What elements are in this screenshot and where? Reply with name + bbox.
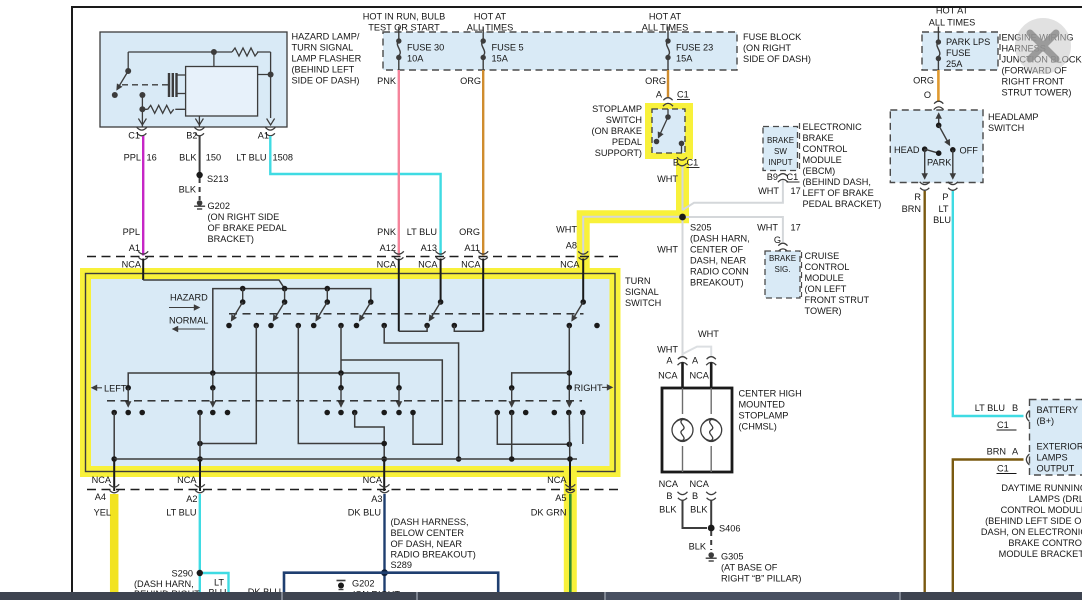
- terminal G cruise: [778, 243, 788, 252]
- wire LT BLU below S290: [199, 573, 201, 592]
- pole 4: [354, 299, 387, 328]
- flasher stationary contact dot: [139, 92, 145, 98]
- svg-text:FUSE 5: FUSE 5: [492, 43, 524, 53]
- svg-text:ALL TIMES: ALL TIMES: [929, 18, 975, 28]
- svg-text:A8: A8: [566, 241, 577, 251]
- park lps fuse 25A: [936, 27, 991, 71]
- svg-text:17: 17: [791, 186, 801, 196]
- svg-text:S289: S289: [391, 560, 412, 570]
- engine wiring harness junction block label: [1002, 33, 1082, 98]
- right drops to bus: [512, 413, 583, 460]
- flasher resistor R bottom: [148, 105, 174, 113]
- switch pole stubs: [243, 289, 328, 302]
- A4 drop: [111, 413, 117, 462]
- splice S289: [381, 569, 388, 576]
- flasher switch pivot dot: [125, 68, 131, 74]
- svg-text:(ON BRAKE: (ON BRAKE: [591, 126, 642, 136]
- wire ORG from fuse 23: [645, 70, 668, 97]
- flasher relay inner box: [186, 67, 258, 117]
- svg-text:DAYTIME RUNNING: DAYTIME RUNNING: [1001, 483, 1082, 493]
- EBCM label leader: [799, 123, 801, 170]
- wire LT BLU branch S290: [203, 573, 229, 598]
- pole 6: [567, 299, 600, 328]
- svg-text:DK GRN: DK GRN: [531, 508, 567, 518]
- svg-text:(BEHIND DASH,: (BEHIND DASH,: [803, 177, 871, 187]
- svg-text:SIGNAL: SIGNAL: [625, 287, 659, 297]
- svg-text:DASH, ON ELECTRONIC: DASH, ON ELECTRONIC: [981, 527, 1082, 537]
- svg-text:A: A: [692, 356, 699, 366]
- svg-text:FRONT STRUT: FRONT STRUT: [805, 295, 870, 305]
- svg-text:C1: C1: [997, 420, 1009, 430]
- left bus drop stubs: [213, 373, 341, 388]
- wire BRN exterior lamps: [953, 447, 1024, 593]
- brake sw input box EBCM: [763, 127, 798, 171]
- terminal C1 flasher: [128, 127, 147, 140]
- svg-text:CONTROL: CONTROL: [805, 262, 850, 272]
- exit stub A5: [547, 459, 570, 491]
- svg-text:OUTPUT: OUTPUT: [1037, 464, 1075, 474]
- svg-text:FUSE BLOCK: FUSE BLOCK: [743, 32, 802, 42]
- DRL exterior lamps output label: [1037, 442, 1082, 474]
- svg-text:G305: G305: [721, 552, 743, 562]
- svg-text:RIGHT “B” PILLAR): RIGHT “B” PILLAR): [721, 574, 802, 584]
- svg-text:(ON RIGHT SIDE: (ON RIGHT SIDE: [208, 212, 280, 222]
- svg-text:BLK: BLK: [659, 505, 677, 515]
- stoplamp switch stationary contact: [679, 141, 685, 153]
- svg-text:NORMAL: NORMAL: [169, 316, 208, 326]
- wire BRN R: [924, 191, 926, 592]
- park lps fuse feed label: [929, 6, 975, 28]
- svg-text:NCA: NCA: [177, 475, 197, 485]
- svg-text:LAMPS (DRL): LAMPS (DRL): [1029, 494, 1082, 504]
- svg-text:BLU: BLU: [933, 215, 951, 225]
- bulb right: [701, 419, 722, 442]
- terminal A4: [95, 484, 119, 502]
- park lps fuse box: [922, 32, 998, 70]
- terminal A3: [371, 484, 389, 504]
- svg-text:(DASH HARNESS,: (DASH HARNESS,: [391, 517, 469, 527]
- exit stub A3: [363, 459, 385, 491]
- exterior C1 label: [997, 464, 1017, 474]
- engine harness label leader: [999, 34, 1001, 62]
- svg-text:TURN SIGNAL: TURN SIGNAL: [292, 43, 354, 53]
- svg-text:SUPPORT): SUPPORT): [595, 148, 642, 158]
- terminal B left CHMSL: [659, 479, 688, 501]
- wire BLK 150: [179, 136, 221, 175]
- wire WHT branch to CHMSL right: [657, 329, 719, 356]
- flasher switch blade: [117, 71, 128, 90]
- svg-text:LEFT OF BRAKE: LEFT OF BRAKE: [803, 188, 874, 198]
- connector row bottom dashed line: [87, 489, 622, 491]
- contact dots row group1: [111, 410, 145, 416]
- hazard lamp / turn signal lamp flasher box: [100, 32, 287, 127]
- svg-text:S205: S205: [690, 223, 711, 233]
- svg-text:RADIO CONN: RADIO CONN: [690, 267, 749, 277]
- switch top bus: [213, 286, 371, 373]
- contact dots row group2: [197, 410, 230, 416]
- svg-text:WHT: WHT: [556, 225, 577, 235]
- svg-text:NCA: NCA: [658, 371, 678, 381]
- headlamp HEAD contact: [894, 145, 928, 155]
- svg-text:BLK: BLK: [690, 505, 708, 515]
- flasher resistor R top: [232, 48, 258, 56]
- riser stationary pole4: [384, 326, 461, 462]
- svg-text:ELECTRONIC: ELECTRONIC: [803, 122, 863, 132]
- svg-text:BELOW CENTER: BELOW CENTER: [391, 528, 465, 538]
- wire ORG park lps: [913, 70, 938, 102]
- svg-text:HAZARD: HAZARD: [170, 293, 208, 303]
- svg-text:(ON LEFT: (ON LEFT: [805, 284, 847, 294]
- flasher exit arrows: [138, 119, 274, 126]
- fuse block box: [383, 32, 737, 70]
- svg-text:B: B: [692, 491, 698, 501]
- NCA stub A8: [582, 259, 584, 303]
- svg-text:O: O: [924, 90, 931, 100]
- contact dots row group5: [495, 410, 529, 416]
- svg-text:PPL: PPL: [124, 153, 141, 163]
- svg-text:HOT AT: HOT AT: [936, 6, 969, 16]
- svg-text:TURN: TURN: [625, 276, 651, 286]
- terminal O headlamp switch: [934, 101, 944, 110]
- right lower links: [497, 413, 572, 448]
- CHMSL input wires: [683, 363, 712, 389]
- svg-text:SIDE OF DASH): SIDE OF DASH): [743, 54, 811, 64]
- feed label hot at all times 1: [467, 12, 513, 33]
- wire DK BLU A3: [348, 494, 385, 592]
- terminal A12 connector: [377, 251, 404, 269]
- svg-text:TOWER): TOWER): [805, 306, 842, 316]
- svg-text:MODULE BRACKET): MODULE BRACKET): [999, 549, 1082, 559]
- right bus: [509, 373, 569, 391]
- contact dots row group3: [324, 410, 357, 416]
- svg-text:A13: A13: [421, 243, 437, 253]
- fuse 5 15A: [481, 27, 524, 71]
- svg-text:S290: S290: [172, 569, 193, 579]
- svg-text:SIDE OF DASH): SIDE OF DASH): [292, 76, 360, 86]
- svg-text:LEFT: LEFT: [104, 383, 127, 393]
- wire LT BLU P: [953, 191, 1024, 416]
- flasher coil contacts: [169, 73, 186, 97]
- svg-text:PNK: PNK: [377, 227, 397, 237]
- terminal A exterior: [1026, 454, 1029, 465]
- ground G202: [194, 200, 287, 244]
- stoplamp switch highlight: [645, 103, 693, 159]
- svg-text:YEL: YEL: [94, 508, 111, 518]
- svg-text:LT: LT: [938, 204, 948, 214]
- flasher lower resistor wire: [142, 95, 185, 127]
- right label and arrow: [567, 383, 613, 393]
- svg-text:PARK LPS: PARK LPS: [946, 37, 990, 47]
- cross link mid: [341, 360, 442, 444]
- svg-text:BRAKE: BRAKE: [803, 133, 834, 143]
- svg-text:HEAD: HEAD: [894, 145, 920, 155]
- svg-text:NCA: NCA: [659, 479, 679, 489]
- svg-text:C1: C1: [787, 172, 799, 182]
- svg-text:NCA: NCA: [92, 475, 112, 485]
- svg-text:WHT: WHT: [657, 245, 678, 255]
- ground G305: [706, 552, 802, 584]
- highlighted wire WHT S205 to A8: [556, 217, 689, 272]
- brake sig box cruise: [765, 251, 800, 298]
- left bus: [128, 370, 399, 388]
- svg-text:OFF: OFF: [960, 145, 979, 155]
- flasher top wire: [128, 52, 270, 118]
- svg-text:SIG.: SIG.: [774, 265, 790, 274]
- fuse 23 15A: [665, 27, 713, 71]
- terminal A11 connector: [461, 251, 488, 269]
- A11 feed link: [454, 326, 483, 332]
- svg-text:BRN: BRN: [902, 204, 921, 214]
- terminal B C1 stoplamp: [657, 157, 699, 184]
- wire BLK left CHMSL: [659, 500, 707, 528]
- svg-text:OF BRAKE PEDAL: OF BRAKE PEDAL: [208, 223, 287, 233]
- terminal R headlamp: [902, 182, 930, 214]
- contact dots row group4: [381, 410, 415, 416]
- svg-text:A11: A11: [464, 243, 480, 253]
- flasher mechanical dashed link: [122, 84, 168, 86]
- svg-text:MODULE: MODULE: [803, 155, 842, 165]
- svg-text:(ON RIGHT: (ON RIGHT: [743, 43, 791, 53]
- svg-text:BRAKE: BRAKE: [769, 254, 796, 263]
- watermark close button: [1015, 18, 1071, 74]
- wire DK BLU loop to grounds: [284, 573, 498, 592]
- svg-text:C1: C1: [687, 158, 699, 168]
- svg-text:ORG: ORG: [459, 227, 480, 237]
- ground G202 lower: [337, 579, 401, 600]
- terminal B2 flasher: [186, 127, 204, 140]
- flasher blade end contact dot: [112, 92, 118, 98]
- svg-text:ORG: ORG: [645, 76, 666, 86]
- switch mechanical dashed line: [229, 313, 584, 315]
- headlamp switch blade: [939, 125, 950, 145]
- terminal A right CHMSL: [690, 356, 717, 381]
- svg-text:BLK: BLK: [689, 542, 707, 552]
- terminal A1 connector: [122, 251, 149, 269]
- svg-text:A1: A1: [258, 131, 269, 141]
- A3 link: [355, 413, 387, 462]
- riser stationary pole2: [298, 326, 384, 444]
- headlamp switch box: [890, 110, 983, 183]
- svg-text:S213: S213: [207, 174, 228, 184]
- wire PNK from fuse 30: [377, 70, 399, 256]
- svg-text:CRUISE: CRUISE: [805, 251, 840, 261]
- svg-text:BRAKE CONTROL: BRAKE CONTROL: [1008, 538, 1082, 548]
- splice S290: [172, 569, 203, 579]
- stoplamp switch label: [591, 104, 642, 158]
- svg-text:A: A: [666, 356, 673, 366]
- wire BLK dashed to ground: [179, 178, 200, 200]
- terminal B9 C1 EBCM: [767, 172, 800, 182]
- fuse 30 10A: [396, 27, 444, 71]
- wire BLK dashed to G305: [689, 531, 712, 552]
- svg-text:NCA: NCA: [690, 371, 710, 381]
- wire ORG from fuse 5: [460, 70, 483, 256]
- battery C1 label: [997, 420, 1017, 430]
- switch bottom bus: [114, 456, 577, 462]
- terminal A1 flasher: [258, 127, 276, 140]
- svg-text:G202: G202: [208, 201, 230, 211]
- svg-text:OF DASH, NEAR: OF DASH, NEAR: [391, 539, 463, 549]
- svg-text:HAZARD LAMP/: HAZARD LAMP/: [292, 32, 360, 42]
- wire PPL 16: [124, 136, 157, 256]
- headlamp switch label: [988, 112, 1039, 133]
- svg-text:FUSE 30: FUSE 30: [407, 43, 444, 53]
- page frame border top: [71, 6, 1082, 8]
- svg-text:16: 16: [147, 153, 157, 163]
- CHMSL label: [739, 389, 802, 432]
- terminal A8 connector: [560, 251, 588, 269]
- svg-text:B: B: [1012, 403, 1018, 413]
- page frame border left: [71, 6, 73, 592]
- svg-text:150: 150: [206, 153, 221, 163]
- svg-text:WHT: WHT: [698, 329, 719, 339]
- flasher label: [292, 32, 362, 86]
- svg-text:LT: LT: [214, 578, 224, 588]
- NCA stub A13: [440, 259, 442, 303]
- svg-text:PEDAL: PEDAL: [612, 137, 642, 147]
- svg-text:S406: S406: [719, 524, 740, 534]
- left row dots: [210, 385, 402, 391]
- terminal A2: [186, 484, 205, 504]
- svg-text:WHT: WHT: [657, 174, 678, 184]
- svg-text:NCA: NCA: [690, 479, 710, 489]
- svg-text:DK BLU: DK BLU: [348, 508, 381, 518]
- svg-text:PPL: PPL: [123, 227, 140, 237]
- svg-text:A5: A5: [555, 493, 566, 503]
- svg-text:NCA: NCA: [363, 475, 383, 485]
- svg-text:(DASH HARN,: (DASH HARN,: [134, 579, 194, 589]
- wire PNK lower labels: [377, 227, 397, 253]
- svg-text:SWITCH: SWITCH: [625, 298, 661, 308]
- svg-text:B2: B2: [186, 131, 197, 141]
- svg-text:ORG: ORG: [460, 76, 481, 86]
- lower mechanical dashed line: [107, 400, 582, 402]
- stoplamp switch box: [652, 109, 685, 153]
- svg-text:HOT AT: HOT AT: [474, 12, 507, 22]
- EBCM label: [803, 122, 882, 209]
- svg-text:CENTER HIGH: CENTER HIGH: [739, 389, 802, 399]
- svg-text:RADIO BREAKOUT): RADIO BREAKOUT): [391, 550, 476, 560]
- terminal B right CHMSL: [690, 479, 717, 501]
- svg-text:C1: C1: [128, 131, 140, 141]
- stoplamp switch blade: [654, 117, 668, 144]
- svg-text:PARK: PARK: [927, 158, 952, 168]
- headlamp OFF contact: [950, 145, 978, 155]
- turn signal switch label: [625, 276, 661, 308]
- svg-text:INPUT: INPUT: [769, 158, 793, 167]
- svg-text:A: A: [1012, 447, 1019, 457]
- contact arrows left: [128, 388, 399, 407]
- highlighted wire WHT stoplamp to S205: [676, 157, 689, 221]
- NCA stub A11: [482, 259, 484, 332]
- svg-text:CENTER OF: CENTER OF: [690, 245, 743, 255]
- riser stationary pole3: [340, 326, 342, 388]
- cruise control module label: [805, 251, 870, 316]
- svg-text:PEDAL BRACKET): PEDAL BRACKET): [803, 199, 882, 209]
- svg-text:SWITCH: SWITCH: [606, 115, 642, 125]
- wire DK GRN A5: [531, 494, 571, 592]
- svg-text:STOPLAMP: STOPLAMP: [739, 411, 789, 421]
- pole 2: [268, 299, 301, 328]
- svg-text:MODULE: MODULE: [805, 273, 844, 283]
- svg-text:G202: G202: [352, 579, 374, 589]
- left label and arrow: [92, 383, 131, 393]
- svg-text:RIGHT FRONT: RIGHT FRONT: [1002, 77, 1065, 87]
- svg-text:HOT IN RUN, BULB: HOT IN RUN, BULB: [363, 12, 446, 22]
- svg-text:LAMP FLASHER: LAMP FLASHER: [292, 54, 362, 64]
- terminal A5: [555, 484, 575, 503]
- svg-text:A12: A12: [380, 243, 396, 253]
- CHMSL box: [662, 388, 732, 472]
- svg-text:FUSE 23: FUSE 23: [676, 43, 713, 53]
- contact arrows right: [512, 387, 570, 406]
- NCA stub A12: [398, 259, 400, 332]
- wire WHT S205 to CHMSL: [657, 217, 682, 356]
- svg-text:15A: 15A: [492, 54, 509, 64]
- svg-text:RIGHT: RIGHT: [574, 383, 603, 393]
- svg-text:BRN: BRN: [987, 447, 1006, 457]
- right side pole6 riser: [567, 326, 573, 388]
- wire PPL lower labels: [123, 227, 140, 253]
- svg-text:PNK: PNK: [377, 76, 397, 86]
- wire LT BLU 1508: [236, 136, 440, 256]
- flasher switch pivot wire: [127, 52, 129, 71]
- svg-text:15A: 15A: [676, 54, 693, 64]
- splice S213: [196, 172, 228, 184]
- svg-text:WHT: WHT: [758, 186, 779, 196]
- svg-text:BLK: BLK: [179, 185, 197, 195]
- cruise label leader: [801, 252, 803, 297]
- svg-text:BATTERY: BATTERY: [1037, 405, 1079, 415]
- CHMSL internal wires: [683, 388, 712, 472]
- pole 5: [424, 299, 457, 328]
- S205 label: [690, 223, 750, 288]
- DRL module label: [981, 483, 1082, 559]
- svg-text:1508: 1508: [273, 153, 293, 163]
- terminal A C1 stoplamp: [656, 90, 690, 107]
- svg-text:(BEHIND LEFT: (BEHIND LEFT: [292, 65, 355, 75]
- svg-text:R: R: [914, 192, 921, 202]
- svg-text:A: A: [656, 90, 663, 100]
- flasher junction dot resistor: [139, 106, 145, 112]
- svg-text:WHT: WHT: [657, 345, 678, 355]
- stoplamp switch contact top: [665, 109, 671, 120]
- pole 1: [226, 299, 259, 328]
- terminal P headlamp: [933, 182, 958, 225]
- svg-text:LAMPS: LAMPS: [1037, 453, 1068, 463]
- bulb left: [672, 419, 693, 442]
- flasher junction dot top: [211, 49, 217, 55]
- svg-text:LT BLU: LT BLU: [236, 153, 266, 163]
- svg-text:SW: SW: [774, 147, 787, 156]
- svg-text:FUSE: FUSE: [946, 48, 971, 58]
- wire LT BLU A2: [166, 494, 200, 573]
- terminal A13 connector: [418, 251, 446, 269]
- fuse block label: [743, 32, 811, 64]
- svg-text:B: B: [666, 491, 672, 501]
- wire YEL A4: [94, 494, 115, 592]
- svg-text:CONTROL MODULE: CONTROL MODULE: [1001, 505, 1082, 515]
- S289 location label: [391, 517, 476, 570]
- wire LT BLU lower labels: [407, 227, 437, 253]
- pole 3: [311, 299, 344, 328]
- svg-text:C1: C1: [677, 90, 689, 100]
- svg-text:ALL TIMES: ALL TIMES: [642, 23, 688, 33]
- svg-text:TEST OR START: TEST OR START: [368, 23, 440, 33]
- svg-text:17: 17: [791, 223, 801, 233]
- wire DK BLU below label: [248, 587, 281, 597]
- svg-text:(DASH HARN,: (DASH HARN,: [690, 234, 750, 244]
